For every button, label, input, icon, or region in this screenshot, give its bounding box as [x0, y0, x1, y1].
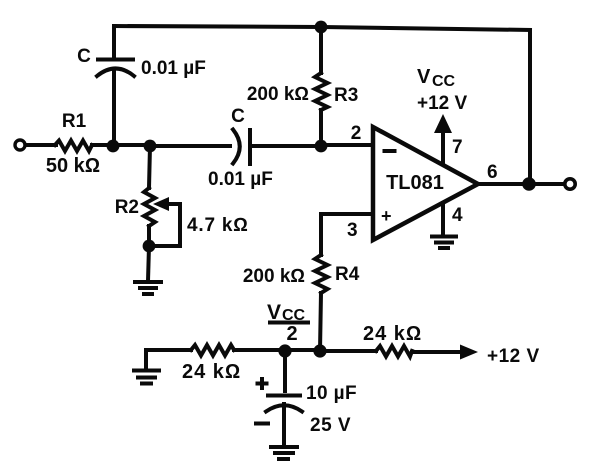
- svg-text:C: C: [231, 106, 245, 127]
- svg-text:4.7 kΩ: 4.7 kΩ: [187, 215, 249, 236]
- pin 7 wire and VCC arrow: [434, 114, 463, 163]
- ground (below R2): [135, 282, 161, 294]
- svg-text:24 kΩ: 24 kΩ: [363, 323, 422, 345]
- resistor R1: [46, 111, 100, 177]
- potentiometer R2 4.7 k: [115, 188, 249, 246]
- svg-text:2: 2: [286, 323, 297, 345]
- wire capacitor C3 to ground: [282, 404, 286, 446]
- svg-text:CC: CC: [432, 73, 456, 90]
- wire R3 down to node D: [319, 110, 323, 146]
- svg-text:6: 6: [487, 162, 498, 183]
- wire node B down to potentiometer R2: [149, 146, 150, 188]
- node F (output junction): [522, 177, 536, 191]
- wire node D to op-amp pin 2: [321, 143, 373, 147]
- node A (junction R1 / C1 / node B): [107, 140, 120, 153]
- svg-text:24 kΩ: 24 kΩ: [182, 361, 241, 383]
- op-amp U1 TL081: [373, 127, 478, 240]
- ground (bottom left): [134, 371, 159, 384]
- node I (R4 bottom junction): [313, 344, 326, 357]
- wire node A to node B: [113, 143, 150, 147]
- svg-text:0.01 µF: 0.01 µF: [141, 58, 206, 79]
- capacitor C3 10 uF 25 V: [256, 379, 357, 436]
- capacitor C1 0.01 uF (top left): [77, 46, 206, 79]
- input terminal: [15, 140, 25, 150]
- svg-text:7: 7: [452, 137, 463, 158]
- wire ground stub up to bottom rail: [146, 350, 191, 369]
- ground (below C3): [271, 447, 297, 459]
- resistor R4 200 k: [243, 255, 360, 293]
- svg-text:10 µF: 10 µF: [306, 383, 357, 404]
- svg-text:TL081: TL081: [386, 172, 444, 194]
- node D (junction C2 / R3 / pin 2): [315, 140, 328, 153]
- wire node C down to R3: [319, 27, 323, 73]
- node H (VCC/2 node): [278, 344, 291, 357]
- pin 6 output wire: [478, 162, 529, 184]
- wire top rail right side down to output: [528, 30, 532, 184]
- svg-text:V: V: [417, 66, 431, 88]
- svg-text:R2: R2: [115, 197, 139, 218]
- svg-text:200 kΩ: 200 kΩ: [247, 84, 309, 105]
- svg-text:4: 4: [452, 205, 463, 226]
- wire top rail: [114, 26, 530, 30]
- wire R4 down to node G: [320, 293, 321, 351]
- wire node E to ground: [148, 246, 149, 281]
- svg-text:R3: R3: [334, 85, 358, 106]
- pin 4 wire: [443, 203, 463, 235]
- svg-text:+: +: [381, 206, 392, 226]
- svg-text:2: 2: [351, 123, 362, 144]
- VCC label (bottom, underlined) with node 2: [267, 301, 308, 345]
- wire input to R1: [26, 143, 56, 147]
- ground (pin 4): [432, 237, 456, 249]
- svg-text:0.01 µF: 0.01 µF: [208, 169, 273, 190]
- wire to +12 V arrow: [412, 350, 462, 354]
- wire node A up to capacitor C1: [112, 70, 116, 145]
- svg-text:+12 V: +12 V: [417, 93, 468, 114]
- svg-text:50 kΩ: 50 kΩ: [46, 155, 100, 177]
- +12 V arrow: [460, 345, 540, 368]
- node C (top of R3): [315, 21, 328, 34]
- VCC +12 V label (top): [417, 66, 468, 114]
- capacitor C2 0.01 uF (middle): [208, 106, 273, 190]
- wire R2 to node E: [147, 226, 151, 246]
- svg-text:200 kΩ: 200 kΩ: [243, 266, 305, 287]
- wire capacitor C1 up to top rail: [112, 26, 116, 59]
- wire 24 k to node H: [234, 348, 285, 352]
- wire node F to output terminal: [529, 182, 563, 186]
- svg-text:3: 3: [347, 220, 358, 241]
- node E (R2 wiper junction): [143, 240, 156, 253]
- output terminal: [565, 179, 575, 189]
- wire node B to capacitor C2: [150, 144, 230, 148]
- svg-text:25 V: 25 V: [310, 415, 351, 436]
- svg-text:C: C: [77, 46, 91, 67]
- node B (junction to R2): [144, 140, 157, 153]
- wire node I to right resistor: [320, 349, 376, 353]
- wire capacitor C2 to node D: [252, 144, 321, 148]
- svg-text:R1: R1: [62, 111, 87, 132]
- wire node H to node I: [285, 348, 320, 352]
- wire node H down to capacitor C3: [283, 351, 287, 391]
- wire op-amp pin 3: [321, 214, 373, 255]
- svg-text:+12 V: +12 V: [487, 346, 540, 367]
- wire R1 to node A: [92, 143, 113, 147]
- resistor 24 k (right): [363, 323, 422, 357]
- svg-text:R4: R4: [335, 264, 360, 285]
- resistor R3 200 k: [247, 73, 358, 110]
- resistor 24 k (left): [182, 345, 241, 383]
